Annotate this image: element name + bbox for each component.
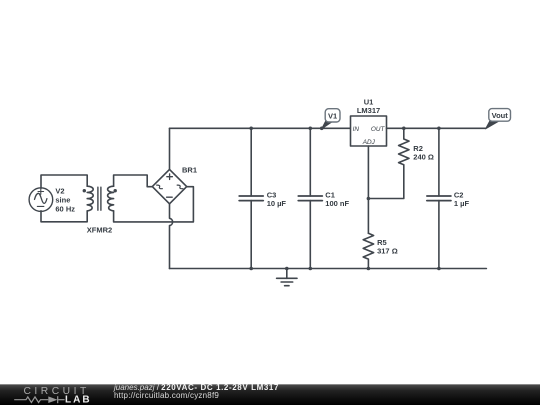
svg-text:OUT: OUT [371,126,386,133]
svg-text:Vout: Vout [492,111,509,120]
wire top rail to U1 IN [170,127,351,129]
junction dot top rail at C2 [437,127,441,131]
svg-text:LM317: LM317 [357,106,380,115]
wire XFMR2 secondary bottom to BR1 right AC terminal [114,187,194,222]
resistor R5 [363,233,373,268]
wire V2 top to XFMR2 primary top [41,175,87,188]
footer credit text [114,384,279,393]
resistor R2 [368,128,409,198]
C2 value labels [454,191,470,208]
svg-text:sine: sine [55,196,70,205]
svg-text:ADJ: ADJ [362,139,376,146]
R5 value labels [377,238,398,255]
wire BR1 plus terminal up to top rail [169,128,171,169]
capacitor C2 [427,128,451,268]
U1 pin labels [353,126,386,146]
XFMR2 secondary polarity dot [114,189,117,192]
junction dot ground rail at ground symbol [285,267,289,271]
bridge rectifier BR1 [152,169,186,203]
junction dot ground rail at C2 [437,267,441,271]
wire XFMR2 primary bottom to V2 bottom [41,211,87,222]
junction dot top rail at R2 [402,127,406,131]
svg-text:100 nF: 100 nF [325,199,349,208]
C3 value labels [267,191,287,208]
CircuitLab footer bar [0,384,540,405]
svg-text:317 Ω: 317 Ω [377,246,398,255]
voltage source V2 [29,188,53,212]
svg-text:10 µF: 10 µF [267,199,287,208]
footer url [114,392,219,401]
junction dot top rail at C3 [249,127,253,131]
svg-text:XFMR2: XFMR2 [87,225,112,234]
capacitor C1 [298,128,322,268]
junction dot ADJ node [367,197,371,201]
svg-text:60 Hz: 60 Hz [55,204,75,213]
U1 designator labels [357,98,380,115]
wire ground rail [170,268,487,270]
svg-text:240 Ω: 240 Ω [413,152,434,161]
junction dot top rail at V1 flag [320,127,324,131]
wire U1 OUT to Vout rail [387,127,486,129]
XFMR2 primary polarity dot [83,189,86,192]
transformer XFMR2 primary winding [87,186,93,211]
svg-text:LAB: LAB [65,394,92,405]
net flag Vout [486,109,511,129]
svg-text:V2: V2 [55,187,64,196]
ground symbol [277,269,297,286]
svg-text:BR1: BR1 [182,166,197,175]
wire U1 ADJ pin down to R5 [367,146,369,233]
V2 value labels [55,187,75,214]
svg-text:1 µF: 1 µF [454,199,470,208]
transformer XFMR2 secondary winding [108,186,114,211]
IC U1 LM317 body [351,116,387,146]
net flag V1 [322,109,340,129]
junction dot ground rail at R5 [367,267,371,271]
junction dot top rail at C1 [309,127,313,131]
svg-text:V1: V1 [328,111,337,120]
CircuitLab logo [10,384,96,405]
svg-text:IN: IN [353,126,360,133]
capacitor C3 [239,128,263,268]
junction dot ground rail at C3 [249,267,253,271]
wire XFMR2 secondary top to BR1 left AC terminal [114,175,153,187]
junction dot ground rail at C1 [309,267,313,271]
R2 value labels [413,144,434,161]
C1 value labels [325,191,349,208]
wire BR1 minus terminal down with hop over secondary wire [170,204,173,269]
transformer XFMR2 core [98,187,101,210]
